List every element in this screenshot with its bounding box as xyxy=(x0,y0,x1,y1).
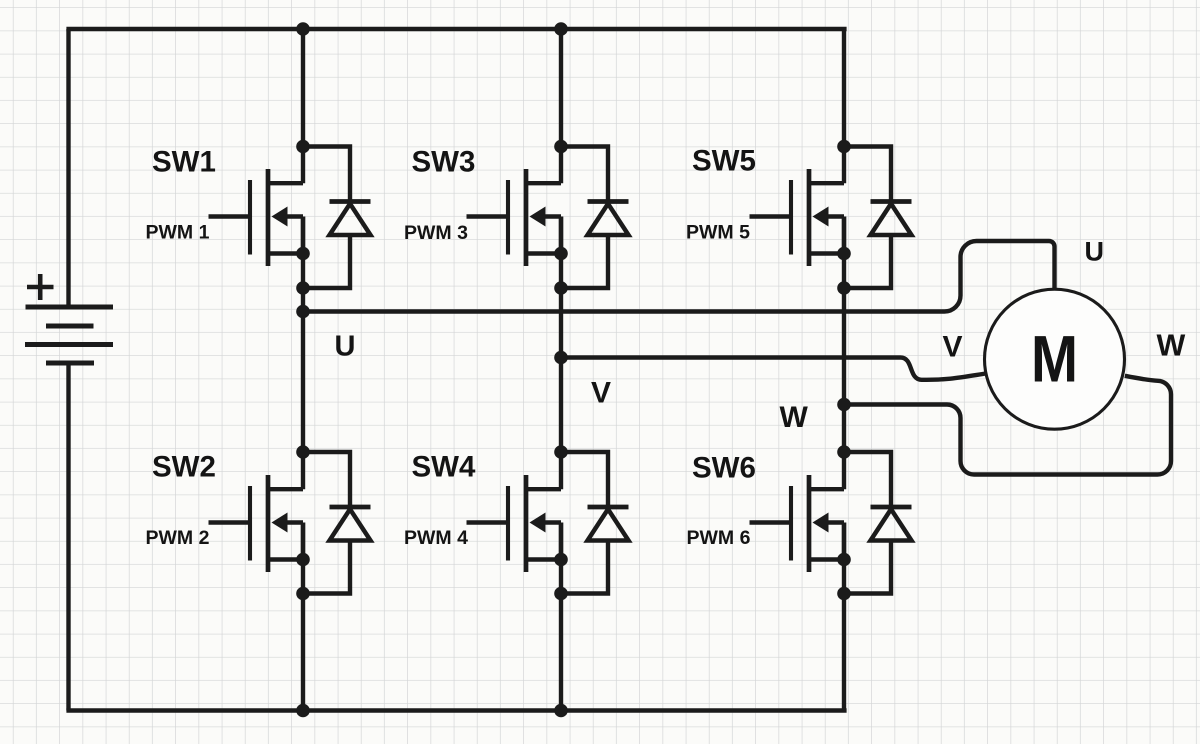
junction bottom rail / leg V xyxy=(554,704,568,718)
svg-text:PWM 4: PWM 4 xyxy=(404,527,468,549)
svg-text:V: V xyxy=(591,377,611,410)
svg-text:SW5: SW5 xyxy=(692,145,756,178)
junction SW3 drain / D3 cathode xyxy=(554,140,568,154)
transistor SW6 (N-MOSFET) xyxy=(750,475,845,572)
battery BT1 negative lead xyxy=(66,363,70,711)
svg-text:M: M xyxy=(1031,323,1078,396)
svg-text:PWM 6: PWM 6 xyxy=(687,527,751,549)
motor M (3-phase) xyxy=(985,289,1125,429)
junction SW6 source xyxy=(837,553,851,567)
junction D6 anode / leg W xyxy=(837,587,851,601)
transistor SW2 (N-MOSFET) xyxy=(209,475,304,572)
junction SW5 drain / D5 cathode xyxy=(837,140,851,154)
wire: phase U from SW1/SW2 midpoint to motor xyxy=(303,241,1055,312)
junction D2 anode / leg U xyxy=(296,587,310,601)
junction node W output xyxy=(837,398,851,412)
svg-text:SW1: SW1 xyxy=(152,146,216,179)
svg-text:W: W xyxy=(1157,329,1186,363)
junction SW4 drain / D4 cathode xyxy=(554,445,568,459)
wire: negative DC rail (bottom) xyxy=(66,708,846,712)
diode D5 (freewheeling, antiparallel) xyxy=(844,147,912,289)
transistor SW5 (N-MOSFET) xyxy=(750,169,845,266)
junction node V output xyxy=(554,351,568,365)
junction SW3 source xyxy=(554,247,568,261)
transistor SW3 (N-MOSFET) xyxy=(467,169,562,266)
svg-text:U: U xyxy=(1085,237,1105,267)
transistor SW1 (N-MOSFET) xyxy=(209,169,304,266)
battery BT1 plates xyxy=(25,307,113,363)
svg-text:SW2: SW2 xyxy=(152,451,216,484)
junction D3 anode / leg V xyxy=(554,281,568,295)
junction top rail / leg U xyxy=(296,22,310,36)
junction SW2 source xyxy=(296,553,310,567)
svg-text:SW3: SW3 xyxy=(412,146,476,179)
svg-text:V: V xyxy=(943,331,963,364)
junction SW2 drain / D2 cathode xyxy=(296,445,310,459)
battery BT1 positive lead xyxy=(66,29,70,307)
junction bottom rail / leg U xyxy=(296,704,310,718)
junction top rail / leg V xyxy=(554,22,568,36)
wire: positive DC rail (top) xyxy=(66,27,846,31)
junction D5 anode / leg W xyxy=(837,281,851,295)
svg-text:W: W xyxy=(780,401,809,434)
wire: phase U half-bridge vertical (x=303) xyxy=(301,29,305,711)
junction D4 anode / leg V xyxy=(554,587,568,601)
transistor SW4 (N-MOSFET) xyxy=(467,475,562,572)
wire: phase W half-bridge vertical (x=844) xyxy=(842,29,846,711)
diode D4 (freewheeling, antiparallel) xyxy=(561,452,629,594)
junction SW4 source xyxy=(554,553,568,567)
wire: phase V from SW3/SW4 midpoint to motor xyxy=(561,358,986,380)
svg-text:PWM 5: PWM 5 xyxy=(686,221,750,243)
svg-text:SW6: SW6 xyxy=(692,452,756,485)
junction SW1 source xyxy=(296,247,310,261)
diode D3 (freewheeling, antiparallel) xyxy=(561,147,629,289)
svg-text:SW4: SW4 xyxy=(412,451,477,484)
svg-text:PWM 2: PWM 2 xyxy=(146,527,210,549)
junction node U output xyxy=(296,305,310,319)
svg-text:U: U xyxy=(335,331,356,363)
svg-text:PWM 3: PWM 3 xyxy=(404,222,468,244)
diode D6 (freewheeling, antiparallel) xyxy=(844,452,912,594)
wire: phase W from SW5/SW6 midpoint to motor (loops under) xyxy=(844,376,1171,475)
diode D1 (freewheeling, antiparallel) xyxy=(303,147,371,289)
junction SW5 source xyxy=(837,247,851,261)
diode D2 (freewheeling, antiparallel) xyxy=(303,452,371,594)
junction SW6 drain / D6 cathode xyxy=(837,445,851,459)
svg-text:PWM 1: PWM 1 xyxy=(146,222,210,244)
battery BT1 plus sign xyxy=(27,274,54,300)
wire: phase V half-bridge vertical (x=561) xyxy=(559,29,563,711)
junction D1 anode / leg U xyxy=(296,281,310,295)
junction SW1 drain / D1 cathode xyxy=(296,140,310,154)
